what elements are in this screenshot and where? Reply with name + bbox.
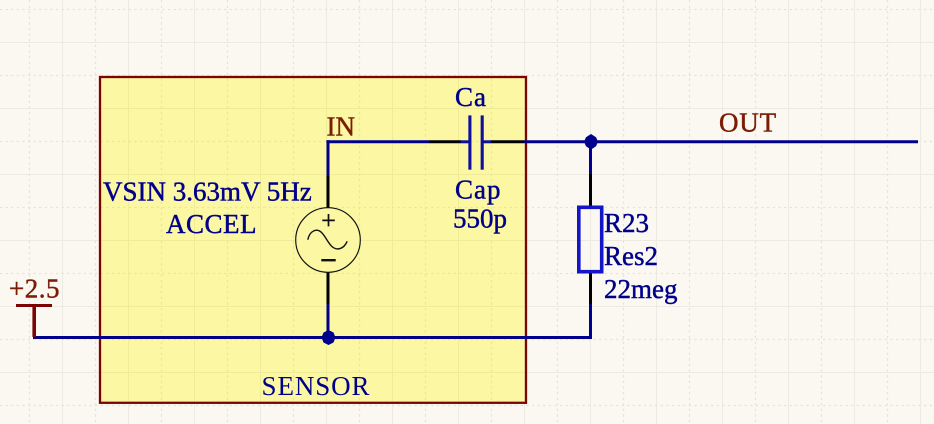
svg-text:IN: IN (327, 111, 356, 141)
capacitor C lead left (461, 140, 469, 143)
junction at top node (584, 134, 598, 150)
wire OUT (524, 140, 918, 143)
wire bottom (33, 336, 592, 339)
svg-text:SENSOR: SENSOR (262, 371, 371, 401)
wire resistor top (589, 142, 592, 174)
source minus sign (321, 259, 335, 261)
svg-text:OUT: OUT (719, 108, 777, 138)
svg-text:ACCEL: ACCEL (166, 209, 257, 239)
sheet symbol SENSOR (100, 77, 526, 403)
capacitor C pin left (429, 140, 461, 143)
resistor R23 (579, 207, 602, 271)
svg-text:+2.5: +2.5 (9, 274, 60, 304)
capacitor C pin right (491, 140, 525, 143)
wire source bottom (327, 303, 330, 337)
capacitor C lead right (483, 140, 491, 143)
power port stem (32, 305, 36, 337)
source V pin top (327, 176, 330, 209)
source V pin bottom (327, 271, 330, 304)
svg-text:R23: R23 (604, 208, 649, 238)
wire IN vertical (327, 140, 330, 177)
wire IN horizontal (326, 140, 429, 143)
source sine wave (308, 230, 347, 249)
resistor pin top (589, 174, 592, 207)
svg-text:VSIN 3.63mV 5Hz: VSIN 3.63mV 5Hz (103, 176, 312, 206)
svg-text:550p: 550p (453, 204, 507, 234)
svg-text:Ca: Ca (455, 82, 487, 112)
wire resistor bottom (589, 304, 592, 337)
svg-text:Cap: Cap (455, 175, 502, 205)
source plus sign (322, 214, 335, 226)
junction at bottom node (322, 330, 336, 345)
power port bar (16, 304, 52, 307)
svg-text:22meg: 22meg (604, 274, 678, 304)
capacitor Ca plates (470, 115, 482, 169)
source VSIN circle (296, 208, 361, 273)
svg-text:Res2: Res2 (604, 241, 658, 271)
resistor pin bottom (589, 273, 592, 305)
